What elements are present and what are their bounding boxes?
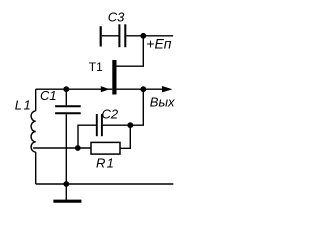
wire coil tap to R1 — [33, 147, 91, 149]
node tap / C2 / R1 junction — [75, 145, 81, 151]
wire main line left (emitter) — [36, 88, 113, 90]
wire +Ep rail — [143, 35, 173, 37]
emitter arrow — [101, 86, 110, 92]
node C1 top — [63, 86, 69, 92]
node ground junction — [63, 181, 69, 187]
capacitor C3 — [101, 24, 144, 47]
wire main line right to output — [117, 88, 164, 90]
wire R1 right lead — [120, 125, 130, 148]
node at C3 / +Ep — [140, 33, 146, 39]
node output junction — [140, 86, 146, 92]
wire collector feed vertical — [117, 36, 144, 66]
wire C2 node to output line — [130, 89, 143, 125]
capacitor C1 — [55, 89, 81, 184]
svg-text:C2: C2 — [102, 107, 119, 122]
svg-text:C3: C3 — [108, 9, 125, 24]
output arrow — [162, 86, 172, 92]
resistor R1 — [91, 142, 120, 154]
ground — [53, 184, 81, 201]
capacitor C2 — [78, 114, 130, 148]
svg-text:R1: R1 — [96, 155, 115, 170]
svg-text:+Еп: +Еп — [146, 35, 172, 51]
svg-text:Т1: Т1 — [89, 60, 103, 74]
svg-text:C1: C1 — [40, 88, 57, 103]
svg-text:Вых: Вых — [150, 95, 175, 110]
svg-text:L1: L1 — [15, 97, 32, 112]
wire L1 bottom vertical — [35, 152, 37, 184]
transistor T1 — [112, 60, 116, 95]
wire bottom rail — [36, 183, 174, 185]
node C2 right — [127, 122, 133, 128]
inductor L1 — [31, 111, 36, 152]
wire L1 top vertical — [35, 89, 37, 111]
